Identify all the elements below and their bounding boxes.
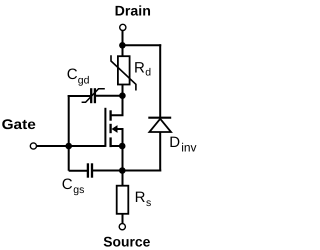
label Rd: [134, 59, 151, 78]
terminal circle Drain: [120, 24, 126, 30]
wire node F down to Rs: [122, 171, 124, 187]
svg-text:Drain: Drain: [115, 3, 151, 19]
svg-text:gd: gd: [78, 74, 90, 86]
wire node S down to node F: [122, 146, 124, 171]
resistor Rs: [117, 186, 129, 214]
svg-text:s: s: [146, 197, 151, 209]
wire bottom rail node F to diode branch: [122, 170, 161, 172]
terminal circle Source: [119, 224, 125, 230]
svg-text:R: R: [134, 59, 145, 76]
svg-text:R: R: [135, 189, 146, 206]
label Rs: [135, 189, 152, 209]
node F junction dot: [119, 167, 126, 174]
wire gate branch vertical: [68, 95, 70, 171]
node D junction dot: [119, 42, 126, 49]
label Source: [103, 233, 150, 249]
svg-text:Gate: Gate: [2, 116, 36, 132]
diode Dinv: [148, 118, 171, 132]
label Drain: [115, 3, 151, 19]
wire Rs bottom to source terminal: [122, 214, 124, 224]
wire diode branch vertical down to cathode: [159, 44, 161, 117]
wire Cgd right plate to node E: [96, 95, 123, 97]
wire gate loop top-left corner to Cgd left plate: [69, 96, 91, 97]
svg-text:Source: Source: [103, 233, 150, 249]
capacitor Cgd: [82, 88, 105, 103]
node E junction dot (Rd/Cgd/drain lead): [119, 92, 126, 99]
label Cgs: [62, 176, 85, 196]
svg-text:gs: gs: [73, 184, 84, 196]
label Gate: [2, 116, 36, 132]
svg-text:d: d: [145, 67, 151, 79]
terminal circle Gate: [30, 143, 36, 149]
wire Rd bottom to node E: [122, 85, 124, 96]
node S junction dot (body/source): [119, 143, 126, 150]
label Cgd: [67, 66, 90, 86]
wire drain terminal to node D: [122, 31, 124, 46]
wire gate branch corner to Cgs left plate: [69, 170, 87, 172]
wire node D down to Rd: [122, 45, 124, 57]
wire top rail node D to diode branch: [122, 44, 161, 46]
capacitor Cgs: [88, 163, 92, 177]
svg-text:C: C: [62, 176, 73, 193]
svg-text:C: C: [67, 66, 78, 83]
resistor Rd: [111, 55, 136, 90]
wire gate terminal to gate plate: [37, 145, 106, 147]
transistor Q1 MOSFET: [105, 96, 122, 147]
svg-text:D: D: [169, 134, 180, 151]
svg-text:inv: inv: [181, 140, 196, 154]
wire Cgs right plate to node F: [93, 170, 123, 172]
label Dinv: [169, 134, 196, 154]
node G junction dot: [65, 143, 72, 150]
wire diode anode down to bottom rail: [159, 132, 161, 172]
